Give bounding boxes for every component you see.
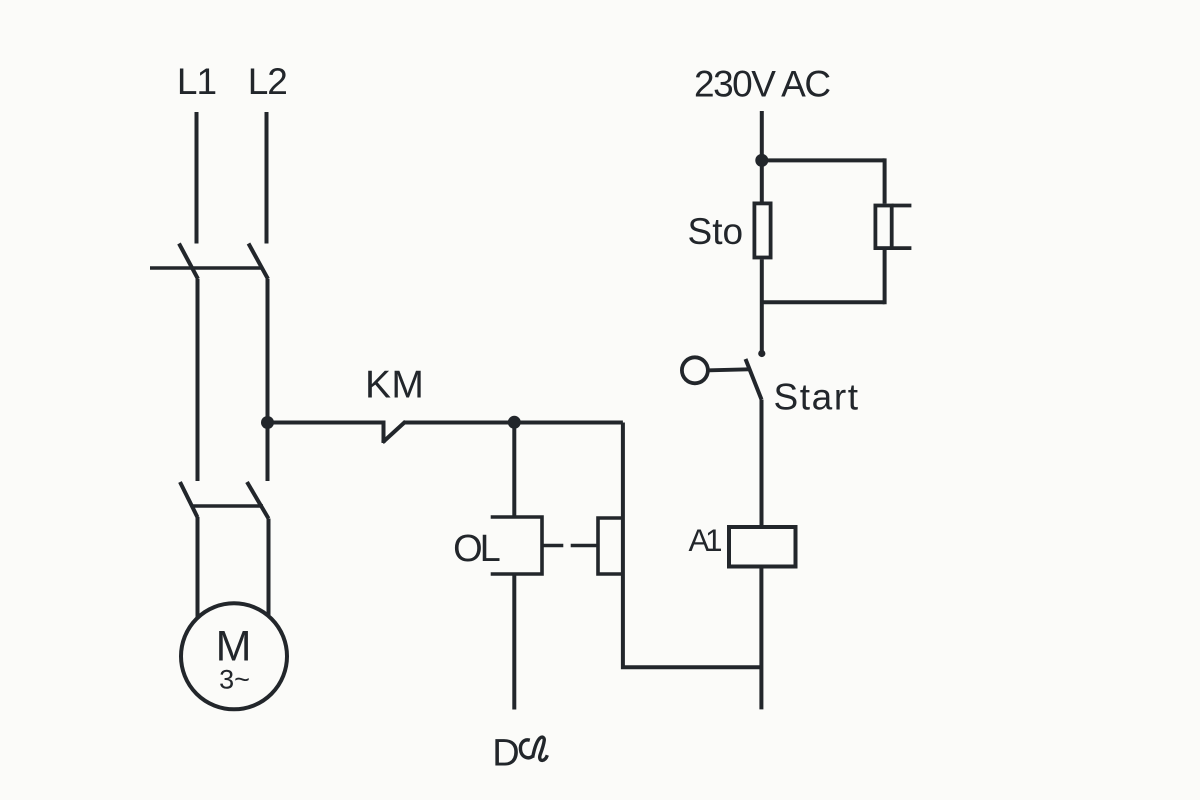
contact OL pole 1 blade — [180, 482, 198, 517]
motor M1 label M — [216, 623, 252, 671]
wire L2 feed — [265, 112, 269, 244]
contact OL pole 2 blade — [247, 482, 269, 519]
svg-text:L2: L2 — [248, 61, 287, 102]
wire main below Sto — [760, 259, 764, 351]
svg-text:KM: KM — [365, 364, 424, 407]
node L2 — [248, 61, 287, 102]
wire branch bottom — [762, 300, 885, 304]
label OL — [453, 528, 500, 570]
label squiggle glyph — [520, 740, 532, 758]
wire L1 to motor — [196, 517, 200, 617]
wire start to coil — [760, 400, 764, 526]
contact KM hook — [382, 421, 386, 444]
svg-text:230V AC: 230V AC — [694, 64, 830, 105]
wire L2 mid — [266, 279, 270, 481]
wire L2 to motor — [267, 519, 271, 616]
aux box stub top — [892, 204, 912, 208]
svg-text:Sto: Sto — [688, 211, 744, 252]
overload heater OL bracket — [491, 517, 542, 574]
start switch fixed dot — [758, 350, 765, 357]
stop button Sto box — [754, 203, 770, 257]
label KM — [365, 364, 424, 407]
wire control riser — [623, 423, 762, 668]
contact KM pole 2 blade — [249, 244, 269, 280]
wire KM row right — [405, 421, 623, 425]
contact KM blade — [383, 422, 406, 443]
mechanical link dash 1 — [542, 544, 563, 548]
start switch blade — [746, 359, 762, 400]
node junction OL tap — [508, 416, 521, 429]
label 230V AC — [694, 64, 830, 105]
svg-text:OL: OL — [453, 528, 500, 570]
wire branch top — [762, 158, 885, 162]
svg-text:L1: L1 — [177, 61, 216, 102]
node junction stop branch — [755, 154, 768, 167]
wire branch right upper — [883, 158, 887, 203]
node L1 — [177, 61, 216, 102]
svg-text:A1: A1 — [688, 522, 721, 558]
start button head — [682, 357, 708, 383]
mechanical link dash 2 — [571, 544, 598, 548]
aux box stub bottom — [892, 246, 912, 250]
motor M1 circle — [181, 603, 287, 709]
wire L1 feed — [195, 112, 199, 244]
label A1 — [688, 522, 721, 558]
contact KM pole 1 blade — [179, 244, 198, 280]
wire 230V feed — [760, 111, 764, 202]
start button plunger — [710, 369, 749, 370]
overload contact box — [598, 518, 621, 574]
wire branch right lower — [883, 250, 887, 304]
label Start — [774, 377, 860, 418]
wire coil return — [759, 569, 763, 710]
wire KM row left — [268, 421, 384, 425]
linkage bar upper contacts — [150, 266, 262, 270]
auxiliary box right branch — [875, 206, 891, 249]
svg-text:D: D — [492, 733, 519, 775]
svg-text:M: M — [216, 623, 252, 671]
contactor coil A1 box — [729, 527, 796, 567]
wire OL drop — [512, 423, 516, 518]
label Sto — [688, 211, 744, 252]
wire below OL — [512, 574, 516, 710]
node junction KM coil tap — [261, 416, 274, 429]
svg-text:3~: 3~ — [219, 665, 250, 695]
linkage bar lower contacts — [193, 504, 263, 508]
svg-text:Start: Start — [774, 377, 860, 418]
wire L1 mid — [196, 279, 200, 481]
motor M1 label 3~ — [219, 665, 250, 695]
label D-squiggle — [492, 733, 519, 775]
